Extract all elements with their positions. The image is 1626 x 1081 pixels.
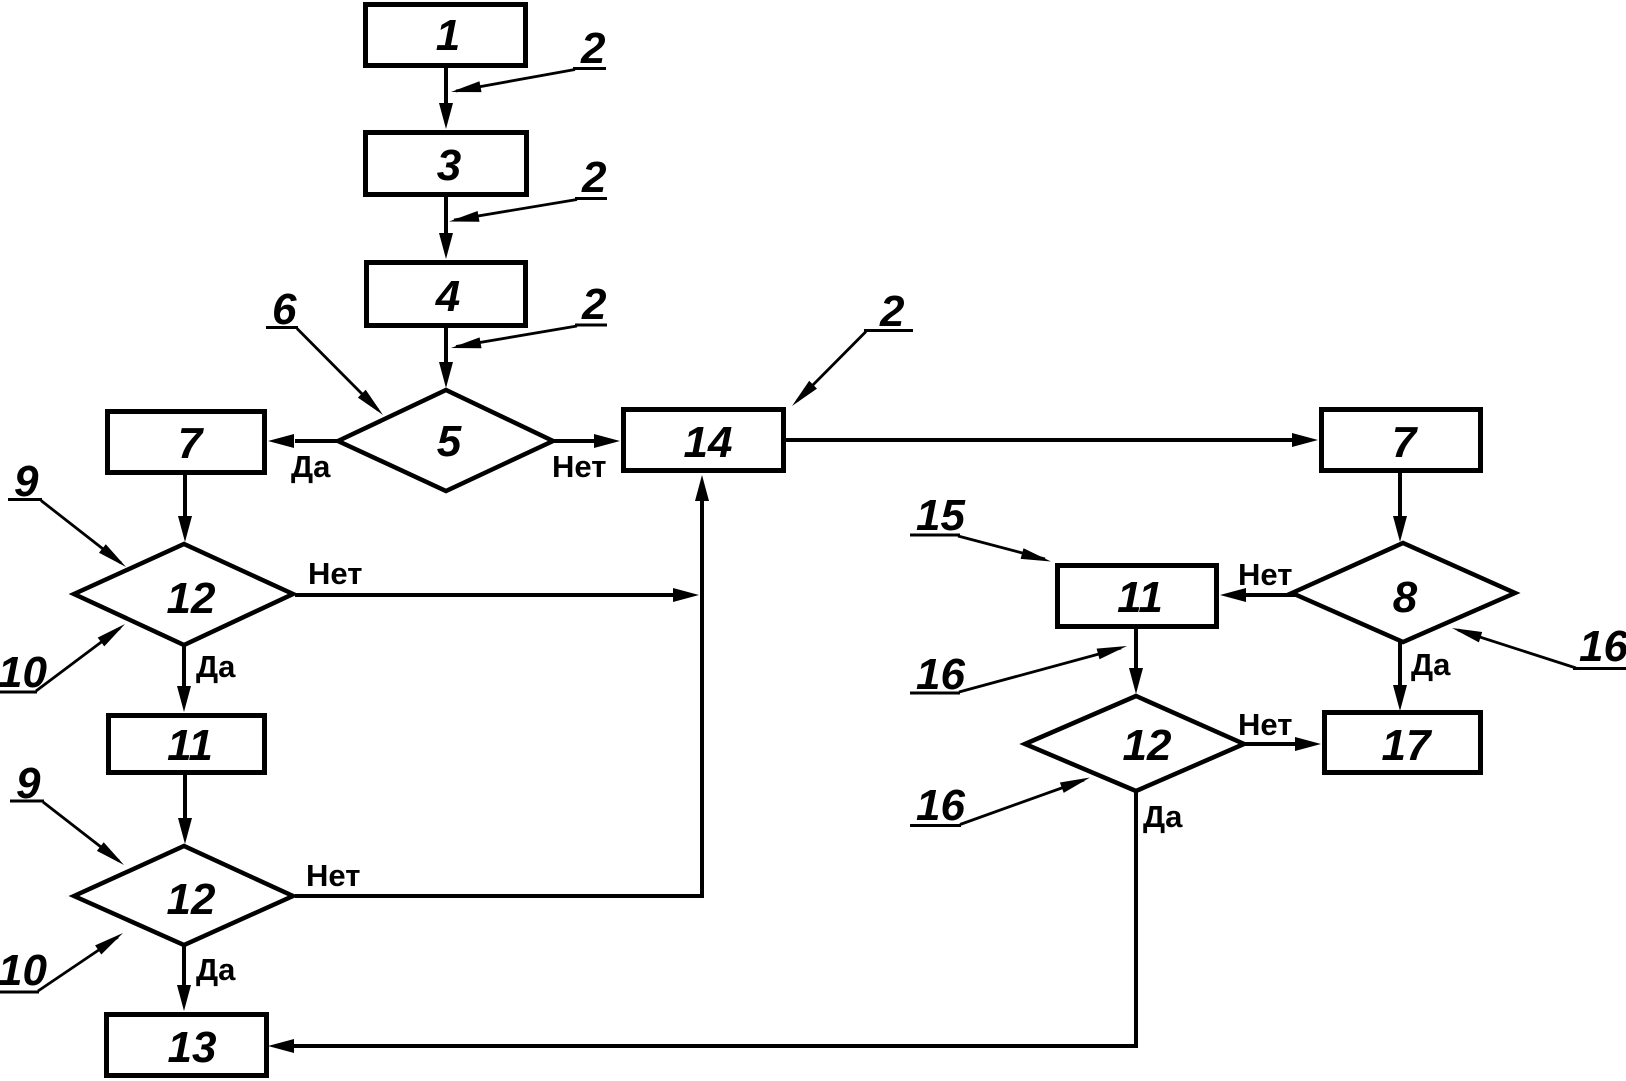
box 4 xyxy=(367,263,526,326)
arrow 7 to 12 left xyxy=(178,473,192,542)
arrow 5 to 7 Da xyxy=(268,434,340,448)
box 11 left xyxy=(109,716,265,773)
callout 2 on arrow 1-3 xyxy=(451,24,606,92)
svg-text:Нет: Нет xyxy=(1238,707,1292,742)
svg-text:5: 5 xyxy=(437,417,462,466)
svg-text:15: 15 xyxy=(916,491,965,540)
svg-text:2: 2 xyxy=(581,280,607,329)
label Da at 8 xyxy=(1411,647,1451,682)
box 13 xyxy=(107,1015,267,1076)
callout 2 on arrow 3-4 xyxy=(449,153,607,222)
svg-text:13: 13 xyxy=(168,1023,217,1072)
arrow 12 Net to riser xyxy=(295,588,699,602)
svg-text:12: 12 xyxy=(167,574,216,623)
arrow 14 to 7 right xyxy=(784,433,1318,447)
arrow 11 right to 12 right xyxy=(1129,627,1143,694)
arrow 12 lower Da to 13 xyxy=(177,943,191,1011)
box 1 xyxy=(366,5,526,66)
box 3 xyxy=(366,133,527,195)
arrow 8 Da to 17 xyxy=(1393,639,1407,711)
decision 5 xyxy=(338,390,553,491)
label Net at 12 lower-left xyxy=(306,858,360,893)
svg-text:2: 2 xyxy=(879,287,905,336)
label Da at 12 lower-left xyxy=(196,952,236,987)
callout 6 on decision 5 xyxy=(266,285,383,415)
svg-text:17: 17 xyxy=(1382,721,1433,770)
svg-text:7: 7 xyxy=(178,419,205,468)
arrow 12 right Net to 17 xyxy=(1242,737,1321,751)
svg-text:10: 10 xyxy=(0,946,47,995)
svg-text:Да: Да xyxy=(196,649,236,684)
arrow 5 to 14 Net xyxy=(551,434,620,448)
arrow 1 to 3 xyxy=(439,66,453,129)
label Net at 8 xyxy=(1238,557,1292,592)
wire 12 lower Net to riser xyxy=(295,894,704,898)
decision 8 xyxy=(1292,543,1515,642)
box 17 xyxy=(1325,713,1481,773)
svg-text:8: 8 xyxy=(1393,573,1418,622)
svg-text:10: 10 xyxy=(0,648,47,697)
box 14 xyxy=(624,410,784,471)
box 7 right xyxy=(1322,410,1481,471)
svg-text:Да: Да xyxy=(291,449,331,484)
svg-text:2: 2 xyxy=(581,153,607,202)
svg-text:14: 14 xyxy=(684,418,733,467)
box 11 right xyxy=(1058,566,1217,627)
svg-text:11: 11 xyxy=(167,721,213,770)
callout 16 on decision 12 right xyxy=(910,778,1090,831)
label Da at 12 upper-left xyxy=(196,649,236,684)
svg-text:4: 4 xyxy=(435,272,460,321)
decision 12 upper-left xyxy=(74,544,293,645)
svg-text:Нет: Нет xyxy=(306,858,360,893)
decision 12 lower-left xyxy=(74,846,293,945)
callout 16 on arrow 11-12 right xyxy=(910,646,1127,699)
callout 15 on box 11 right xyxy=(910,491,1051,562)
svg-text:Да: Да xyxy=(1411,647,1451,682)
svg-text:11: 11 xyxy=(1117,573,1163,622)
label Net at 12 right xyxy=(1238,707,1292,742)
callout 10 upper xyxy=(0,624,125,697)
callout 10 lower xyxy=(0,933,123,995)
arrow 3 to 4 xyxy=(439,195,453,259)
riser wire to 14 xyxy=(695,475,709,896)
label Net at 12 upper-left xyxy=(308,556,362,591)
arrow 12 Da to 11 left xyxy=(177,643,191,712)
svg-text:12: 12 xyxy=(1123,721,1172,770)
svg-text:16: 16 xyxy=(916,781,965,830)
arrow 4 to 5 xyxy=(439,326,453,388)
box 7 left xyxy=(108,412,265,473)
svg-text:Нет: Нет xyxy=(552,449,606,484)
svg-text:2: 2 xyxy=(580,24,606,73)
arrow 7 right to 8 xyxy=(1393,471,1407,542)
svg-text:7: 7 xyxy=(1392,418,1419,467)
svg-text:3: 3 xyxy=(437,141,461,190)
svg-text:1: 1 xyxy=(436,11,460,60)
decision 12 right xyxy=(1025,696,1244,791)
label Net at 5 xyxy=(552,449,606,484)
label Da at 12 right xyxy=(1143,799,1183,834)
svg-text:Да: Да xyxy=(196,952,236,987)
svg-text:Нет: Нет xyxy=(308,556,362,591)
callout 16 on decision 8 xyxy=(1452,622,1626,671)
arrow 11 to 12 lower-left xyxy=(178,773,192,844)
svg-text:Да: Да xyxy=(1143,799,1183,834)
callout 9 lower xyxy=(10,759,124,865)
arrow 8 Net to 11 right xyxy=(1220,588,1296,602)
svg-text:16: 16 xyxy=(1579,622,1626,671)
svg-text:Нет: Нет xyxy=(1238,557,1292,592)
svg-text:12: 12 xyxy=(167,875,216,924)
callout 2 on box 14 xyxy=(792,287,913,406)
callout 2 on arrow 4-5 xyxy=(451,280,607,348)
label Da at 5 xyxy=(291,449,331,484)
wire 12 right Da to 13 xyxy=(268,789,1136,1053)
callout 9 upper xyxy=(8,457,126,567)
